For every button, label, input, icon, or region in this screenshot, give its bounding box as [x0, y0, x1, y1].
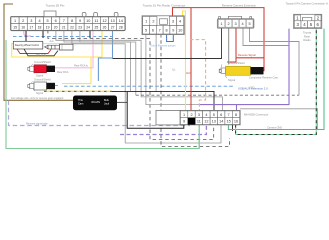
wire yellow drop to RCA area [62, 57, 91, 84]
svg-text:Bulk: Bulk [104, 99, 110, 102]
wire yellow-black dashed to 16pin pin1 [44, 90, 112, 92]
svg-text:7: 7 [159, 28, 161, 32]
svg-text:Toyota 10 Pin Radio Connector: Toyota 10 Pin Radio Connector [143, 4, 186, 8]
connector 28-pin tab 2 [94, 13, 98, 17]
connector 28-pin Toyota body [10, 16, 125, 30]
svg-text:15: 15 [13, 25, 17, 29]
wire brown low-voltage feed [4, 4, 73, 100]
svg-text:Reverse Signal: Reverse Signal [238, 53, 256, 57]
connector 5-pin top notch [229, 16, 242, 18]
svg-text:7: 7 [228, 113, 230, 117]
connector 5-pin corner tick right [250, 17, 252, 19]
svg-text:1: 1 [145, 20, 147, 24]
svg-text:Radio: Radio [303, 38, 311, 42]
svg-text:Toyota 6 Pin Camera Connection: Toyota 6 Pin Camera Connection H. [286, 2, 329, 6]
connector 10-pin pins 5-10 [143, 26, 150, 35]
svg-text:11: 11 [197, 120, 201, 124]
wire blue jumper U on 10pin [167, 34, 174, 42]
svg-text:14: 14 [119, 19, 123, 23]
svg-text:1: 1 [14, 19, 16, 23]
wire pink front-left to red RCA [55, 30, 93, 68]
wire purple camera power [200, 29, 289, 105]
svg-text:1: 1 [221, 22, 223, 26]
svg-text:18: 18 [38, 25, 42, 29]
svg-text:28: 28 [119, 25, 123, 29]
svg-text:3: 3 [235, 22, 237, 26]
wire gray bundle hB long to camera area [64, 30, 136, 95]
svg-text:10: 10 [86, 19, 90, 23]
connector 10-pin middle key [160, 19, 168, 25]
module black converter box [73, 96, 117, 111]
svg-text:23: 23 [78, 25, 82, 29]
connector 6-pin camera body [294, 14, 322, 28]
connector 16-pin body [180, 110, 240, 125]
connector 16-pin empty side compartment [156, 110, 180, 125]
svg-text:12: 12 [102, 19, 106, 23]
wire red reverse loop [173, 8, 265, 58]
svg-text:8: 8 [235, 113, 237, 117]
svg-text:Ground/Shield: Ground/Shield [34, 78, 51, 82]
connector 16-pin blacked pin 10 [188, 118, 196, 125]
svg-text:25: 25 [95, 25, 99, 29]
svg-text:Toyota 28 Pin: Toyota 28 Pin [46, 4, 65, 8]
svg-text:Aux: Aux [50, 40, 55, 43]
wire green solid camera video [228, 29, 324, 130]
svg-text:27: 27 [111, 25, 115, 29]
svg-text:1: 1 [183, 113, 185, 117]
svg-text:RCA/IN: RCA/IN [92, 101, 101, 104]
wire green-black dashed camera [236, 28, 317, 135]
svg-text:ACC: ACC [186, 72, 191, 75]
svg-text:2: 2 [152, 20, 154, 24]
svg-text:6: 6 [220, 113, 222, 117]
connector 6-pin pin 1 [294, 15, 300, 21]
svg-text:MH-M28 Connector: MH-M28 Connector [244, 113, 268, 117]
connector 5-pin reverse camera extension body [217, 19, 254, 29]
wire SWC black lead to jack [24, 49, 58, 56]
svg-text:Signal: Signal [36, 73, 44, 77]
svg-text:2: 2 [228, 22, 230, 26]
svg-text:9: 9 [172, 28, 174, 32]
connector 28-pin top notch [44, 11, 56, 17]
wire blue dashed illumination (top) [13, 36, 113, 38]
wire black 16pin pin15 stub [232, 125, 234, 132]
wire black accessory bus [112, 91, 214, 111]
wire blue dashed aux lead (mid) [64, 85, 235, 87]
svg-text:Ground/Shield: Ground/Shield [228, 61, 245, 65]
connector 5-pin corner tick left [219, 17, 221, 19]
wire purple drop to 16pin pin8 [236, 105, 238, 111]
svg-text:10: 10 [178, 28, 182, 32]
wire gray stub v2 [130, 42, 132, 91]
connector 16-pin pins 9-16 [180, 118, 187, 125]
svg-text:3: 3 [30, 19, 32, 23]
svg-text:13: 13 [212, 120, 216, 124]
svg-text:2: 2 [22, 19, 24, 23]
SWC steering wheel control box [13, 41, 43, 49]
svg-text:Signal: Signal [228, 78, 236, 82]
svg-text:7: 7 [63, 19, 65, 23]
connector 5-pin pins 1-5 [218, 20, 225, 28]
svg-text:8: 8 [165, 28, 167, 32]
wire red to RCA barrel [262, 58, 265, 71]
svg-text:26: 26 [103, 25, 107, 29]
wire gray bundle hA to 16pin pin6 [56, 30, 223, 111]
svg-text:6: 6 [152, 28, 154, 32]
svg-text:Composite Reverse Cam: Composite Reverse Cam [249, 75, 278, 79]
svg-text:19: 19 [46, 25, 50, 29]
svg-text:ILL: ILL [172, 69, 176, 72]
svg-text:4: 4 [179, 20, 181, 24]
wire gray 5pin pin2 shield [228, 28, 230, 65]
svg-text:20: 20 [54, 25, 58, 29]
svg-text:11: 11 [94, 19, 98, 23]
svg-text:Cam: Cam [78, 102, 83, 105]
svg-text:Camera GND: Camera GND [267, 126, 282, 129]
connector 28-pin tab 1 [82, 13, 86, 17]
RCA plug red (left audio) [28, 65, 55, 73]
svg-text:Reverse Camera Extension: Reverse Camera Extension [222, 4, 257, 8]
wire black dashed loop to 16pin pin13 [48, 30, 214, 140]
svg-text:5: 5 [47, 19, 49, 23]
wire SWC red lead to jack [17, 49, 51, 54]
connector 10-pin pins 1-2 [143, 17, 150, 26]
wire purple dashed reverse signal (left) [9, 101, 191, 126]
svg-text:17: 17 [29, 25, 33, 29]
svg-text:5: 5 [213, 113, 215, 117]
svg-text:2: 2 [190, 113, 192, 117]
wire red 5pin pin3 drop [235, 28, 237, 58]
svg-text:Ground/Shield: Ground/Shield [34, 60, 51, 64]
connector 28-pin pins 15-28 [11, 24, 19, 31]
svg-text:6: 6 [55, 19, 57, 23]
svg-text:3: 3 [172, 20, 174, 24]
wire orange dashed reverse [190, 40, 206, 111]
svg-text:Reverse signal wire: Reverse signal wire [26, 123, 48, 126]
wire black vertical to pin9 loop [127, 92, 184, 128]
wire gray 5pin pin5 [250, 28, 300, 95]
wire purple dashed segment B to pin12 [120, 125, 206, 135]
wire gray 5pin pin1 drop [113, 28, 222, 59]
svg-text:21: 21 [62, 25, 66, 29]
wire yellow 10pin pin4 loop down to 16pin pin1 [183, 11, 186, 111]
svg-text:Rear RCA: Rear RCA [57, 71, 69, 74]
svg-text:22: 22 [70, 25, 74, 29]
svg-text:24: 24 [86, 25, 90, 29]
aux jack 3.5mm plug [45, 40, 74, 50]
wire dark dashed loop to 16pin pin15 [161, 34, 230, 147]
connector 6-pin pins 3-6 [294, 21, 301, 28]
connector 10-pin Toyota radio body [142, 16, 184, 35]
wire black box right elbow [117, 101, 127, 103]
svg-text:Jack: Jack [104, 102, 110, 105]
svg-text:14: 14 [219, 120, 223, 124]
connector 6-pin middle key [302, 17, 311, 20]
wire green 16pin pin11 drop [198, 125, 200, 149]
wire gray 10pin pin6 drop [155, 34, 157, 91]
wire blue solid pin27 route to 16pin pin4 [98, 30, 112, 81]
RCA plug white (right audio) [28, 82, 55, 90]
svg-text:GND: GND [249, 87, 255, 90]
svg-text:9: 9 [79, 19, 81, 23]
RCA plug yellow (composite reverse cam) [219, 66, 263, 75]
wire red drop to RCA tip [227, 58, 236, 62]
svg-text:Steering Wheel Control: Steering Wheel Control [15, 44, 40, 47]
wire pink elbow pin16 [24, 30, 31, 36]
svg-text:16: 16 [234, 120, 238, 124]
svg-text:13: 13 [110, 19, 114, 23]
svg-text:15: 15 [226, 120, 230, 124]
wire black pin17 drop to SWC box [25, 30, 27, 42]
wire gray bundle hC bottom loop to pin14 [72, 30, 221, 143]
svg-text:SW GND: SW GND [36, 54, 46, 57]
svg-text:9: 9 [183, 120, 185, 124]
svg-text:Rear RCA In: Rear RCA In [74, 65, 89, 68]
svg-text:8: 8 [71, 19, 73, 23]
svg-text:5: 5 [145, 28, 147, 32]
svg-text:3: 3 [198, 113, 200, 117]
connector 16-pin pins 1-8 [180, 111, 187, 118]
svg-text:4: 4 [242, 22, 244, 26]
connector 6-pin pin 2 [315, 15, 321, 21]
wire gray camera shield loop [240, 109, 318, 130]
svg-text:4: 4 [38, 19, 40, 23]
wire red branch drop to 16pin pin2 [190, 8, 192, 111]
svg-text:16: 16 [21, 25, 25, 29]
connector 28-pin tab 3 [114, 13, 118, 17]
svg-text:4: 4 [205, 113, 207, 117]
connector 10-pin pins 3-4 [169, 17, 176, 26]
svg-text:low voltage wire +12v w/ rever: low voltage wire +12v w/ reverse gear en… [11, 97, 64, 100]
wire green left ground loop [6, 40, 199, 149]
junction drop pin24 to blue dash [89, 30, 91, 38]
wire gray 5pin pin4 [243, 28, 288, 46]
wire gray 10pin pin5 long to purple [146, 34, 200, 105]
junction drop pin18 to blue dash [42, 30, 44, 38]
svg-text:5: 5 [249, 22, 251, 26]
svg-text:12: 12 [204, 120, 208, 124]
svg-text:This: This [78, 99, 83, 102]
wire white RCA stub [49, 85, 58, 87]
wire yellow loop around SWC [12, 30, 102, 57]
svg-text:Signal: Signal [36, 91, 44, 95]
connector 28-pin pins 1-14 [11, 17, 19, 24]
svg-text:This is Reverse jumper: This is Reverse jumper [150, 45, 176, 48]
